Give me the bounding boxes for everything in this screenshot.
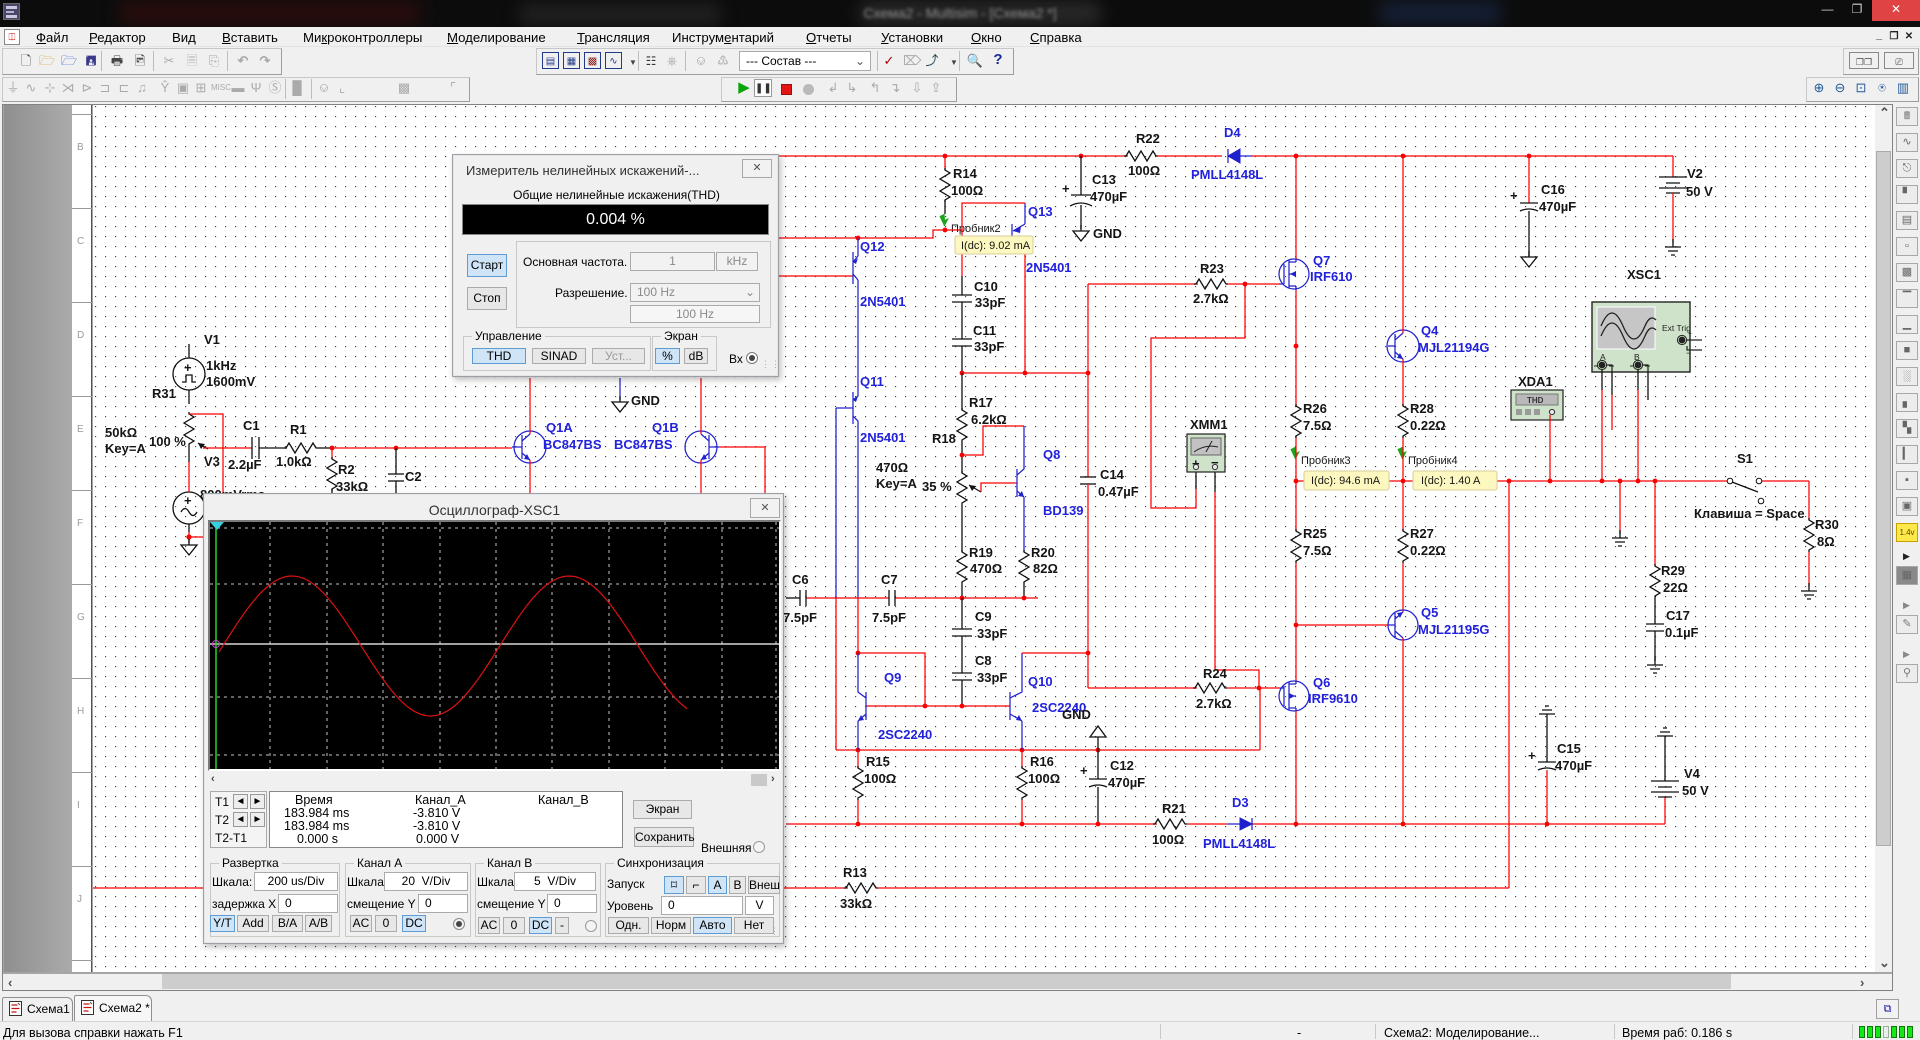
svg-text:2.7kΩ: 2.7kΩ [1193, 291, 1229, 306]
wire Q7 source [1295, 290, 1297, 406]
svg-text:GND: GND [1062, 707, 1091, 722]
resistor R14 [940, 156, 983, 214]
svg-text:Q7: Q7 [1313, 253, 1330, 268]
probe Пробник3 [1291, 447, 1351, 467]
svg-text:I(dc): 94.6 mA: I(dc): 94.6 mA [1311, 475, 1381, 487]
wire Q1A emitter [529, 460, 531, 493]
svg-text:+: + [184, 493, 192, 508]
svg-text:Q5: Q5 [1421, 605, 1438, 620]
capacitor C13 [1062, 156, 1127, 229]
wire lower loop to gate [1259, 688, 1261, 750]
wire R24 gate line [1088, 687, 1197, 689]
ground below C16 [1521, 251, 1537, 267]
svg-text:2N5401: 2N5401 [1026, 260, 1072, 275]
mosfet Q7 [1279, 253, 1353, 290]
svg-text:C16: C16 [1541, 182, 1565, 197]
wire mirror collector-base tie [858, 653, 925, 706]
right instruments toolbar [0, 0, 1920, 1]
wire XSC1 channel A lead [1601, 370, 1603, 390]
svg-text:0.47µF: 0.47µF [1098, 484, 1139, 499]
svg-text:35 %: 35 % [922, 479, 952, 494]
svg-text:V1: V1 [204, 332, 220, 347]
capacitor C10 [952, 230, 1005, 310]
transistor Q5 [1388, 605, 1490, 640]
svg-text:R22: R22 [1136, 131, 1160, 146]
resistor R30 [1804, 517, 1839, 587]
svg-text:I(dc): 1.40 A: I(dc): 1.40 A [1421, 475, 1481, 487]
svg-text:Q1A: Q1A [546, 420, 573, 435]
transistor Q9 [858, 653, 932, 750]
multimeter XMM1 [1187, 417, 1228, 472]
wire Q12 base feed [778, 275, 853, 277]
probe Пробник4 [1398, 447, 1458, 467]
wire Q7 drain [1295, 156, 1297, 259]
svg-text:R27: R27 [1410, 526, 1434, 541]
wire XMM1 right lead [1214, 471, 1216, 492]
probe Пробник2 [940, 214, 1001, 235]
svg-text:V3: V3 [204, 454, 220, 469]
capacitor C14 [1080, 467, 1139, 688]
wire Q1B base out [719, 447, 765, 493]
wire VAS output to driver column [1022, 652, 1088, 654]
svg-text:100Ω: 100Ω [864, 771, 896, 786]
svg-text:Q8: Q8 [1043, 447, 1060, 462]
svg-text:R19: R19 [969, 545, 993, 560]
wire Q13 collector [1024, 250, 1026, 373]
svg-text:0.22Ω: 0.22Ω [1410, 543, 1446, 558]
wire Q1B emitter [700, 460, 702, 493]
svg-text:C13: C13 [1092, 172, 1116, 187]
svg-text:Клавиша = Space: Клавиша = Space [1694, 506, 1805, 521]
tooltip I(dc) 9.02 mA [955, 236, 1033, 254]
svg-text:PMLL4148L: PMLL4148L [1191, 167, 1263, 182]
battery V2 [1659, 156, 1713, 243]
wire Q4 emitter [1402, 359, 1404, 406]
wire XSC1 channel B lead [1637, 370, 1639, 390]
svg-text:7.5pF: 7.5pF [783, 610, 817, 625]
wire Q1B collector [700, 378, 702, 434]
svg-text:Пробник2: Пробник2 [951, 223, 1001, 235]
svg-text:Q9: Q9 [884, 670, 901, 685]
wire R18 wiper to Q8 base [981, 483, 1017, 492]
svg-text:BC847BS: BC847BS [543, 437, 602, 452]
svg-text:C14: C14 [1100, 467, 1125, 482]
wire output node [1295, 446, 1297, 531]
tooltip I(dc) 1.40 A [1413, 471, 1497, 490]
wire wiper to C1 [203, 447, 252, 449]
resistor R24 [1193, 666, 1232, 711]
svg-text:C6: C6 [792, 572, 809, 587]
svg-text:33pF: 33pF [974, 339, 1004, 354]
wire Q9 Q10 base line [866, 705, 1010, 707]
svg-text:GND: GND [631, 393, 660, 408]
wire feedback bottom line [93, 887, 848, 889]
svg-text:470µF: 470µF [1108, 775, 1145, 790]
svg-text:Q11: Q11 [860, 374, 884, 389]
ground above C15 [1539, 706, 1555, 714]
wire output bus [1296, 480, 1727, 482]
svg-text:GND: GND [1093, 226, 1122, 241]
resistor R15 [853, 750, 896, 824]
svg-text:6.2kΩ: 6.2kΩ [971, 412, 1007, 427]
svg-text:V4: V4 [1684, 766, 1701, 781]
svg-text:0.1µF: 0.1µF [1665, 625, 1699, 640]
ground below V3 [181, 539, 197, 555]
resistor R2 [327, 448, 368, 496]
wire XSC1 B minus lead [1647, 372, 1649, 400]
wire R31 top loop [189, 414, 223, 493]
svg-text:2SC2240: 2SC2240 [878, 727, 932, 742]
svg-text:50 V: 50 V [1682, 783, 1709, 798]
wire XSC1 A minus lead [1611, 372, 1613, 395]
node rail junctions [943, 154, 948, 159]
wire Q6 source to rail [1295, 711, 1297, 824]
svg-text:470Ω: 470Ω [970, 561, 1002, 576]
wire R1 to Q1A base [330, 447, 512, 449]
svg-text:THD: THD [1527, 396, 1544, 405]
svg-text:7.5Ω: 7.5Ω [1303, 418, 1332, 433]
ground below R30 [1801, 583, 1817, 599]
svg-text:R31: R31 [152, 386, 176, 401]
source V1 [173, 332, 255, 404]
svg-text:Пробник3: Пробник3 [1301, 455, 1351, 467]
svg-text:2.7kΩ: 2.7kΩ [1196, 696, 1232, 711]
svg-text:C15: C15 [1557, 741, 1581, 756]
resistor R16 [1017, 750, 1060, 824]
source V3 [173, 454, 265, 532]
svg-text:33pF: 33pF [977, 670, 1007, 685]
svg-text:+: + [1688, 331, 1692, 338]
svg-text:0.22Ω: 0.22Ω [1410, 418, 1446, 433]
transistor Q11 [836, 374, 906, 445]
svg-text:R20: R20 [1031, 545, 1055, 560]
svg-text:XDA1: XDA1 [1518, 374, 1553, 389]
svg-text:R28: R28 [1410, 401, 1434, 416]
capacitor C7 [872, 572, 906, 625]
svg-text:470µF: 470µF [1555, 758, 1592, 773]
svg-text:+: + [1510, 188, 1518, 203]
svg-text:1kHz: 1kHz [206, 358, 237, 373]
svg-text:R16: R16 [1030, 754, 1054, 769]
capacitor C16 [1510, 156, 1576, 257]
wire R29 branch [1654, 481, 1656, 566]
svg-text:R14: R14 [953, 166, 978, 181]
resistor R22 [1124, 131, 1160, 178]
svg-text:R18: R18 [932, 431, 956, 446]
svg-text:50kΩ: 50kΩ [105, 425, 137, 440]
wire Q11 base to lower loop [835, 408, 837, 598]
svg-text:470µF: 470µF [1090, 189, 1127, 204]
svg-text:1600mV: 1600mV [206, 374, 255, 389]
svg-text:C2: C2 [405, 469, 422, 484]
svg-text:50 V: 50 V [1686, 184, 1713, 199]
ground input pair [612, 378, 660, 412]
wire to R30 [1808, 481, 1810, 520]
svg-text:2N5401: 2N5401 [860, 430, 906, 445]
svg-text:100Ω: 100Ω [1028, 771, 1060, 786]
wire Q11 collector to mirror [857, 428, 859, 598]
svg-text:BC847BS: BC847BS [614, 437, 673, 452]
svg-text:Q12: Q12 [860, 239, 885, 254]
diode D3 [1203, 795, 1275, 851]
resistor R23 [1193, 261, 1229, 306]
svg-text:+: + [184, 360, 192, 375]
svg-text:I(dc): 9.02 mA: I(dc): 9.02 mA [961, 240, 1031, 252]
wire R28 to output node [1402, 446, 1404, 531]
diode D4 [1191, 125, 1263, 182]
transistor Q8 [1017, 426, 1083, 552]
wire lower loop horizontal [836, 749, 1260, 751]
svg-text:C9: C9 [975, 609, 992, 624]
svg-text:Q13: Q13 [1028, 204, 1053, 219]
svg-text:8Ω: 8Ω [1817, 534, 1835, 549]
wire XMM1 branch [1151, 284, 1245, 508]
svg-text:Ext Trig: Ext Trig [1662, 323, 1691, 333]
svg-text:100Ω: 100Ω [1152, 832, 1184, 847]
svg-text:IRF9610: IRF9610 [1308, 691, 1358, 706]
svg-text:7.5Ω: 7.5Ω [1303, 543, 1332, 558]
wire Q1A collector [529, 378, 531, 434]
wire V3 out [186, 532, 206, 543]
svg-text:PMLL4148L: PMLL4148L [1203, 836, 1275, 851]
resistor R21 [1152, 801, 1187, 847]
svg-text:R21: R21 [1162, 801, 1186, 816]
resistor R28 [1398, 401, 1446, 446]
capacitor C12 [1080, 758, 1145, 824]
ground below V2 [1665, 239, 1681, 255]
svg-text:Пробник4: Пробник4 [1408, 455, 1458, 467]
svg-text:100Ω: 100Ω [1128, 163, 1160, 178]
svg-text:−: − [1686, 348, 1691, 358]
svg-text:MJL21194G: MJL21194G [1418, 340, 1490, 355]
svg-text:+: + [1062, 181, 1070, 196]
svg-text:7.5pF: 7.5pF [872, 610, 906, 625]
resistor R1 [276, 422, 330, 469]
resistor R13 [840, 865, 878, 911]
svg-text:C1: C1 [243, 418, 260, 433]
resistor R29 [1650, 563, 1688, 624]
wire R23 gate line [1088, 283, 1198, 285]
tooltip I(dc) 94.6 mA [1304, 471, 1389, 490]
svg-text:Q4: Q4 [1421, 323, 1439, 338]
mosfet Q6 [1279, 675, 1358, 711]
svg-text:R17: R17 [969, 395, 993, 410]
svg-text:D4: D4 [1224, 125, 1241, 140]
potentiometer R18 [876, 431, 981, 505]
svg-text:1.0kΩ: 1.0kΩ [276, 454, 312, 469]
capacitor C1 [228, 418, 287, 472]
resistor R25 [1291, 526, 1332, 681]
svg-text:R23: R23 [1200, 261, 1224, 276]
capacitor C2 [388, 448, 422, 496]
svg-text:Q6: Q6 [1313, 675, 1330, 690]
wire feedback column [1508, 481, 1510, 888]
ground below C17 [1647, 657, 1663, 673]
battery V4 [1651, 736, 1709, 824]
wire compensation input node [806, 597, 889, 599]
svg-text:+: + [1080, 763, 1088, 778]
svg-text:470Ω: 470Ω [876, 460, 908, 475]
svg-text:C12: C12 [1110, 758, 1134, 773]
svg-text:C8: C8 [975, 653, 992, 668]
svg-text:R2: R2 [338, 462, 355, 477]
svg-text:R25: R25 [1303, 526, 1327, 541]
svg-text:+: + [1528, 748, 1536, 763]
wire mirror top node [778, 230, 962, 238]
wire Q5 emitter to rail [1402, 638, 1404, 824]
svg-text:82Ω: 82Ω [1033, 561, 1058, 576]
resistor R27 [1398, 526, 1446, 612]
switch S1 [1694, 451, 1805, 521]
resistor R17 [957, 373, 1007, 473]
capacitor C8 [952, 636, 1007, 706]
resistor R26 [1291, 401, 1332, 446]
capacitor C17 [1646, 608, 1699, 661]
svg-text:R29: R29 [1661, 563, 1685, 578]
svg-text:XSC1: XSC1 [1627, 267, 1661, 282]
svg-text:V2: V2 [1687, 166, 1703, 181]
svg-text:C11: C11 [973, 323, 996, 338]
transistor Q1A [512, 420, 602, 463]
ground above V4 [1657, 728, 1673, 736]
svg-text:C17: C17 [1666, 608, 1690, 623]
ground below C13 [1073, 225, 1122, 241]
svg-text:100Ω: 100Ω [951, 183, 983, 198]
svg-text:100 %: 100 % [149, 434, 186, 449]
svg-text:Q1B: Q1B [652, 420, 679, 435]
svg-text:D3: D3 [1232, 795, 1249, 810]
svg-text:MJL21195G: MJL21195G [1418, 622, 1490, 637]
svg-text:470µF: 470µF [1539, 199, 1576, 214]
svg-text:R26: R26 [1303, 401, 1327, 416]
svg-text:R24: R24 [1203, 666, 1228, 681]
svg-text:R30: R30 [1815, 517, 1839, 532]
wire Q5 base [1296, 624, 1388, 626]
capacitor C11 [952, 302, 1004, 373]
wire R17 tap to Q8 collector [962, 426, 1024, 455]
resistor R19 [957, 505, 1002, 598]
transistor Q4 [1387, 323, 1490, 362]
wire Q13 base [962, 203, 1025, 230]
wire top supply rail [700, 155, 1128, 157]
transistor Q12 [853, 238, 906, 375]
svg-text:R1: R1 [290, 422, 307, 437]
analyzer XDA1 [1511, 374, 1563, 420]
svg-text:22Ω: 22Ω [1663, 580, 1688, 595]
ground GND above C12 [1062, 707, 1106, 779]
oscilloscope XSC1 icon [1592, 267, 1702, 372]
wire top rail right segment [1158, 155, 1222, 157]
capacitor C9 [952, 598, 1007, 641]
svg-text:Key=A: Key=A [876, 476, 917, 491]
svg-text:R13: R13 [843, 865, 867, 880]
wire VAS upper node [962, 372, 1088, 374]
wire driver column [1087, 284, 1089, 477]
capacitor C6 [783, 572, 817, 625]
svg-text:C7: C7 [881, 572, 898, 587]
transistor Q10 [1010, 653, 1086, 750]
svg-text:Q10: Q10 [1028, 674, 1053, 689]
wire Q4 collector [1402, 156, 1404, 333]
svg-text:S1: S1 [1737, 451, 1753, 466]
svg-text:33pF: 33pF [977, 626, 1007, 641]
svg-text:33kΩ: 33kΩ [336, 479, 368, 494]
svg-text:33kΩ: 33kΩ [840, 896, 872, 911]
resistor R20 [1019, 545, 1058, 598]
svg-text:2N5401: 2N5401 [860, 294, 906, 309]
svg-text:C10: C10 [974, 279, 998, 294]
svg-text:XMM1: XMM1 [1190, 417, 1228, 432]
svg-text:R15: R15 [866, 754, 890, 769]
transistor Q1B [614, 420, 719, 463]
transistor Q13 [1012, 203, 1072, 275]
wire bottom output rail [786, 823, 1157, 825]
ground stub near S1 [1612, 481, 1628, 546]
svg-text:Key=A: Key=A [105, 441, 146, 456]
svg-text:BD139: BD139 [1043, 503, 1083, 518]
wire XDA1 lead [1549, 415, 1551, 481]
potentiometer R31 [105, 386, 208, 462]
capacitor C15 [1528, 714, 1592, 824]
svg-text:33pF: 33pF [975, 295, 1005, 310]
svg-text:2.2µF: 2.2µF [228, 457, 262, 472]
svg-text:IRF610: IRF610 [1310, 269, 1353, 284]
